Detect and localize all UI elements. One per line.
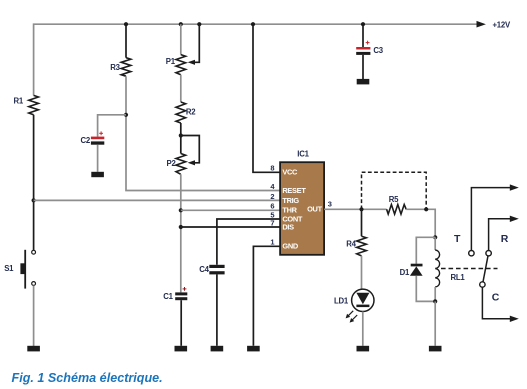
resistor R2 [176, 102, 186, 123]
junction dot relay top [433, 235, 437, 239]
svg-text:C4: C4 [199, 265, 209, 274]
svg-text:P2: P2 [167, 159, 177, 168]
junction dot OUT/R5 right [424, 207, 428, 211]
plus sign C2 [99, 131, 103, 135]
resistor R5 [387, 205, 407, 215]
wire THR pin6 [181, 209, 280, 211]
resistor R4 [357, 236, 367, 256]
ground below C1 [175, 346, 188, 352]
wire R4 to LED [361, 256, 363, 289]
svg-text:6: 6 [270, 202, 274, 211]
junction dot rail/P1 wiper [197, 22, 201, 26]
LED LD1 [352, 289, 374, 311]
wire S1 to ground [33, 286, 35, 347]
junction dot rail/C3 [361, 22, 365, 26]
diode D1 [410, 264, 423, 276]
svg-text:C1: C1 [163, 292, 173, 301]
arrowhead of +12V rail [477, 21, 486, 28]
svg-text:C2: C2 [81, 136, 91, 145]
svg-text:OUT: OUT [307, 205, 322, 214]
svg-text:DIS: DIS [282, 222, 294, 231]
ground below LED [357, 346, 370, 352]
junction dot rail/P1 top [179, 22, 183, 26]
junction dot R3/C2 [124, 113, 128, 117]
svg-text:P1: P1 [166, 57, 176, 66]
svg-text:C3: C3 [373, 46, 383, 55]
svg-text:R3: R3 [110, 63, 120, 72]
arrowhead C [510, 316, 519, 322]
wire DIS pin7 [181, 226, 280, 228]
wire C3 branch [362, 24, 364, 47]
svg-text:1: 1 [270, 238, 274, 247]
svg-text:R1: R1 [14, 96, 24, 105]
wire R4 top lead [361, 209, 363, 236]
svg-text:D1: D1 [400, 268, 410, 277]
arrowhead T [510, 184, 519, 190]
wire R2 to P2 [180, 123, 182, 154]
svg-text:3: 3 [328, 199, 332, 208]
wiper arrow P2 [188, 160, 195, 165]
contact circle R [486, 251, 491, 256]
wire R1 bottom to S1 [33, 115, 35, 251]
ground below IC pin1 [247, 346, 260, 352]
wire LED to ground [362, 312, 364, 346]
wire R5 to relay branch [406, 209, 435, 237]
switch arm [483, 256, 488, 282]
junction dot R2/P2 wiper [179, 133, 183, 137]
svg-text:S1: S1 [4, 264, 14, 273]
wire D1 branch bottom [416, 276, 435, 302]
contact circle T [469, 251, 474, 256]
wire P1 top lead [180, 24, 182, 54]
svg-text:R2: R2 [186, 108, 196, 117]
junction dot TRIG tap [31, 198, 35, 202]
plus sign C3 [366, 41, 370, 45]
svg-text:R4: R4 [346, 239, 356, 248]
capacitor C3 [356, 47, 370, 55]
svg-text:RESET: RESET [282, 186, 306, 195]
svg-text:Fig. 1 Schéma électrique.: Fig. 1 Schéma électrique. [12, 371, 163, 385]
wire coil top lead [434, 237, 436, 250]
capacitor C2 [91, 137, 104, 145]
pivot circle arm [480, 282, 485, 287]
wire C1 to ground [180, 300, 182, 346]
svg-text:R: R [501, 233, 509, 245]
capacitor C1 [175, 292, 187, 300]
op-amp/timer IC1 body [280, 162, 324, 255]
svg-text:THR: THR [282, 206, 297, 215]
junction dot rail/R3 [124, 22, 128, 26]
svg-text:T: T [454, 233, 461, 245]
wire C4 to ground [216, 274, 218, 345]
capacitor C4 [209, 265, 224, 275]
svg-text:VCC: VCC [282, 168, 298, 177]
svg-text:2: 2 [270, 192, 274, 201]
wire OUT pin3 [324, 208, 387, 210]
plus sign C1 [183, 287, 187, 291]
junction dot OUT/R4 [359, 207, 363, 211]
svg-text:C: C [492, 292, 500, 304]
svg-text:RL1: RL1 [451, 273, 466, 282]
wire GND pin1 to ground [253, 246, 280, 345]
wire contact C [482, 287, 510, 319]
resistor R1 [29, 95, 39, 114]
wire P2 down to C1 [180, 174, 182, 292]
ground below C3 [357, 79, 370, 85]
ground below S1 [27, 346, 40, 352]
wire C3 to ground [362, 55, 364, 79]
wire contact T [471, 188, 510, 251]
potentiometer P2 [176, 154, 186, 175]
svg-text:7: 7 [270, 218, 274, 227]
svg-text:R5: R5 [389, 195, 399, 204]
junction dot rail/VCC line [251, 22, 255, 26]
svg-text:LD1: LD1 [334, 296, 349, 305]
resistor R3 [121, 58, 131, 76]
LED emission arrows [346, 311, 358, 323]
pushbutton S1 [20, 250, 35, 289]
wiper wire P2 [181, 136, 200, 163]
wire coil bottom lead [434, 287, 436, 301]
wiper wire P1 [191, 24, 200, 62]
arrowhead R [510, 216, 519, 222]
svg-text:+12V: +12V [493, 20, 511, 29]
relay coil RL1 [435, 250, 439, 287]
wire R3 branch top [125, 24, 127, 58]
wire: +12V top supply rail [34, 24, 478, 95]
wire TRIG pin2 [34, 199, 281, 201]
junction dot DIS [179, 225, 183, 229]
wire CONT pin5 to C4 [217, 219, 280, 265]
wire contact R [489, 219, 511, 251]
ground below C2 [91, 172, 104, 177]
ground below C4 [211, 346, 224, 352]
junction dot THR [179, 208, 183, 212]
wire C2 to ground [97, 145, 99, 172]
wire VCC pin8 to rail [253, 24, 280, 172]
wire C2 branch [98, 115, 126, 137]
svg-text:IC1: IC1 [297, 149, 309, 158]
dashed relay actuation line [441, 268, 498, 270]
ground below relay [429, 346, 442, 352]
svg-text:8: 8 [270, 164, 274, 173]
wire R3 bottom down to RESET corner [126, 76, 280, 190]
wiper arrow P1 [188, 60, 195, 65]
svg-text:TRIG: TRIG [282, 196, 299, 205]
wire D1 branch top [416, 237, 435, 264]
wire relay to ground [434, 301, 436, 345]
junction dot relay bottom [433, 299, 437, 303]
dashed feedback box [362, 172, 427, 209]
svg-text:GND: GND [282, 242, 298, 251]
potentiometer P1 [176, 55, 186, 75]
wire P1 to R2 [180, 75, 182, 102]
